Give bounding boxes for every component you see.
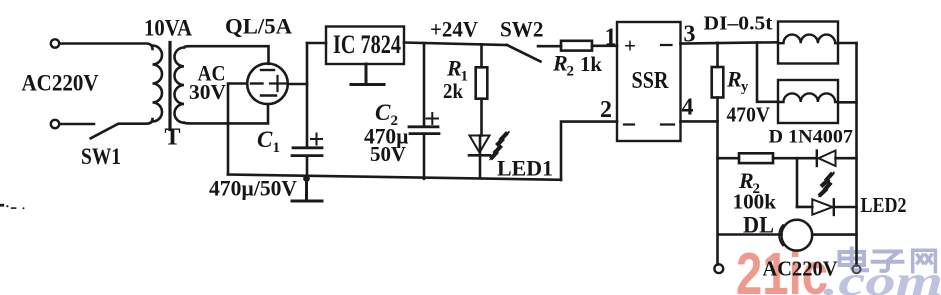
wire bottom input [60, 123, 95, 126]
switch SW1 [91, 119, 153, 138]
ground IC [351, 64, 384, 85]
svg-text:AC220V: AC220V [763, 257, 838, 281]
ground rail [228, 175, 561, 180]
wire plus node vertical [306, 43, 309, 147]
wire C2 branch [423, 43, 426, 179]
resistor R2 100k [739, 153, 773, 163]
wire secondary bottom to bridge [184, 104, 268, 123]
wire Ry branch [716, 43, 719, 67]
wire R2 to SSR pin1 [592, 44, 617, 47]
switch SW2 [507, 45, 541, 62]
svg-text:LED2: LED2 [861, 193, 907, 217]
svg-text:100k: 100k [733, 190, 777, 214]
wire coil2 right [838, 101, 857, 104]
wire SW2 to R2 [538, 45, 561, 48]
bridge rectifier QL/5A [247, 64, 288, 105]
wire SSR pin2 [561, 122, 617, 180]
svg-text:+: + [624, 34, 636, 58]
svg-text:470V: 470V [727, 103, 771, 127]
wire left lower vertical [716, 98, 719, 265]
svg-text:T: T [165, 125, 181, 151]
svg-text:LED1: LED1 [497, 156, 553, 181]
LED1 [479, 136, 482, 179]
scan smudge [0, 204, 25, 209]
terminal input top [51, 39, 59, 47]
wire coil1 right [838, 42, 857, 45]
wire +24V rail [404, 43, 507, 46]
terminal input bottom [51, 120, 59, 128]
svg-text:AC220V: AC220V [22, 71, 99, 96]
svg-text:SW1: SW1 [81, 144, 121, 169]
wire bridge plus right [288, 83, 307, 86]
SSR U2 [617, 22, 681, 141]
IC 7824 regulator U1 [326, 27, 404, 65]
terminal output right [853, 265, 861, 273]
svg-text:4: 4 [682, 95, 694, 121]
wire D row left [718, 157, 740, 160]
svg-text:IC 7824: IC 7824 [333, 30, 401, 59]
transformer core [168, 43, 171, 130]
svg-text:R: R [726, 67, 742, 92]
svg-text:3: 3 [684, 22, 696, 48]
wire R2 to D [773, 157, 817, 160]
svg-text:y: y [741, 79, 749, 95]
lamp DL [781, 220, 812, 251]
wire R1 branch [480, 44, 483, 67]
wire top input [60, 44, 153, 50]
wire bridge minus down [228, 84, 247, 175]
svg-text:50V: 50V [370, 142, 406, 166]
svg-text:30V: 30V [189, 80, 226, 104]
resistor R1 [476, 67, 488, 98]
transformer T primary winding [153, 46, 163, 122]
svg-text:+24V: +24V [430, 16, 478, 41]
svg-text:2: 2 [567, 64, 575, 80]
ground below C1 [292, 179, 322, 202]
wire IC input [307, 42, 326, 45]
svg-text:470µ/50V: 470µ/50V [209, 176, 297, 201]
svg-text:2: 2 [600, 97, 612, 123]
capacitor C2 [409, 125, 438, 128]
LED2 [797, 206, 812, 209]
svg-text:1: 1 [273, 140, 281, 156]
resistor R2 1k [561, 41, 592, 51]
svg-text:C: C [257, 127, 273, 152]
resistor Ry [712, 67, 724, 98]
wire node drop to LED2 [796, 158, 799, 207]
degaussing coil 1 [778, 22, 838, 64]
svg-text:SSR: SSR [632, 68, 670, 94]
capacitor C1 [293, 146, 322, 149]
LED1 emission bolts [491, 133, 508, 160]
svg-text:DI–0.5t: DI–0.5t [704, 13, 773, 35]
svg-text:SW2: SW2 [500, 17, 544, 42]
wire right vertical [855, 43, 858, 266]
svg-text:D 1N4007: D 1N4007 [769, 127, 854, 148]
wire SSR pin3 [681, 42, 779, 43]
svg-text:2k: 2k [443, 79, 463, 103]
LED2 emission bolts [819, 173, 833, 196]
node C1/rail junction [303, 175, 310, 182]
wire R1 to LED1 [480, 99, 483, 136]
transformer T secondary winding [175, 48, 185, 123]
watermark 电子网 glyphs [840, 249, 936, 272]
wire secondary top to bridge [184, 46, 269, 64]
svg-text:DL: DL [743, 213, 774, 238]
wire SSR pin4 [681, 120, 718, 123]
svg-text:1: 1 [605, 25, 617, 51]
svg-text:QL/5A: QL/5A [225, 14, 293, 39]
svg-text:C: C [375, 100, 391, 125]
svg-text:R: R [446, 56, 462, 81]
svg-text:10VA: 10VA [144, 16, 192, 41]
wire coil2 branch [757, 43, 778, 102]
svg-text:1k: 1k [580, 52, 602, 76]
degaussing coil 2 [778, 80, 838, 123]
terminal output left [714, 264, 723, 273]
wire DL row [719, 233, 782, 236]
svg-text:R: R [552, 51, 568, 76]
diode D 1N4007 [816, 151, 818, 167]
